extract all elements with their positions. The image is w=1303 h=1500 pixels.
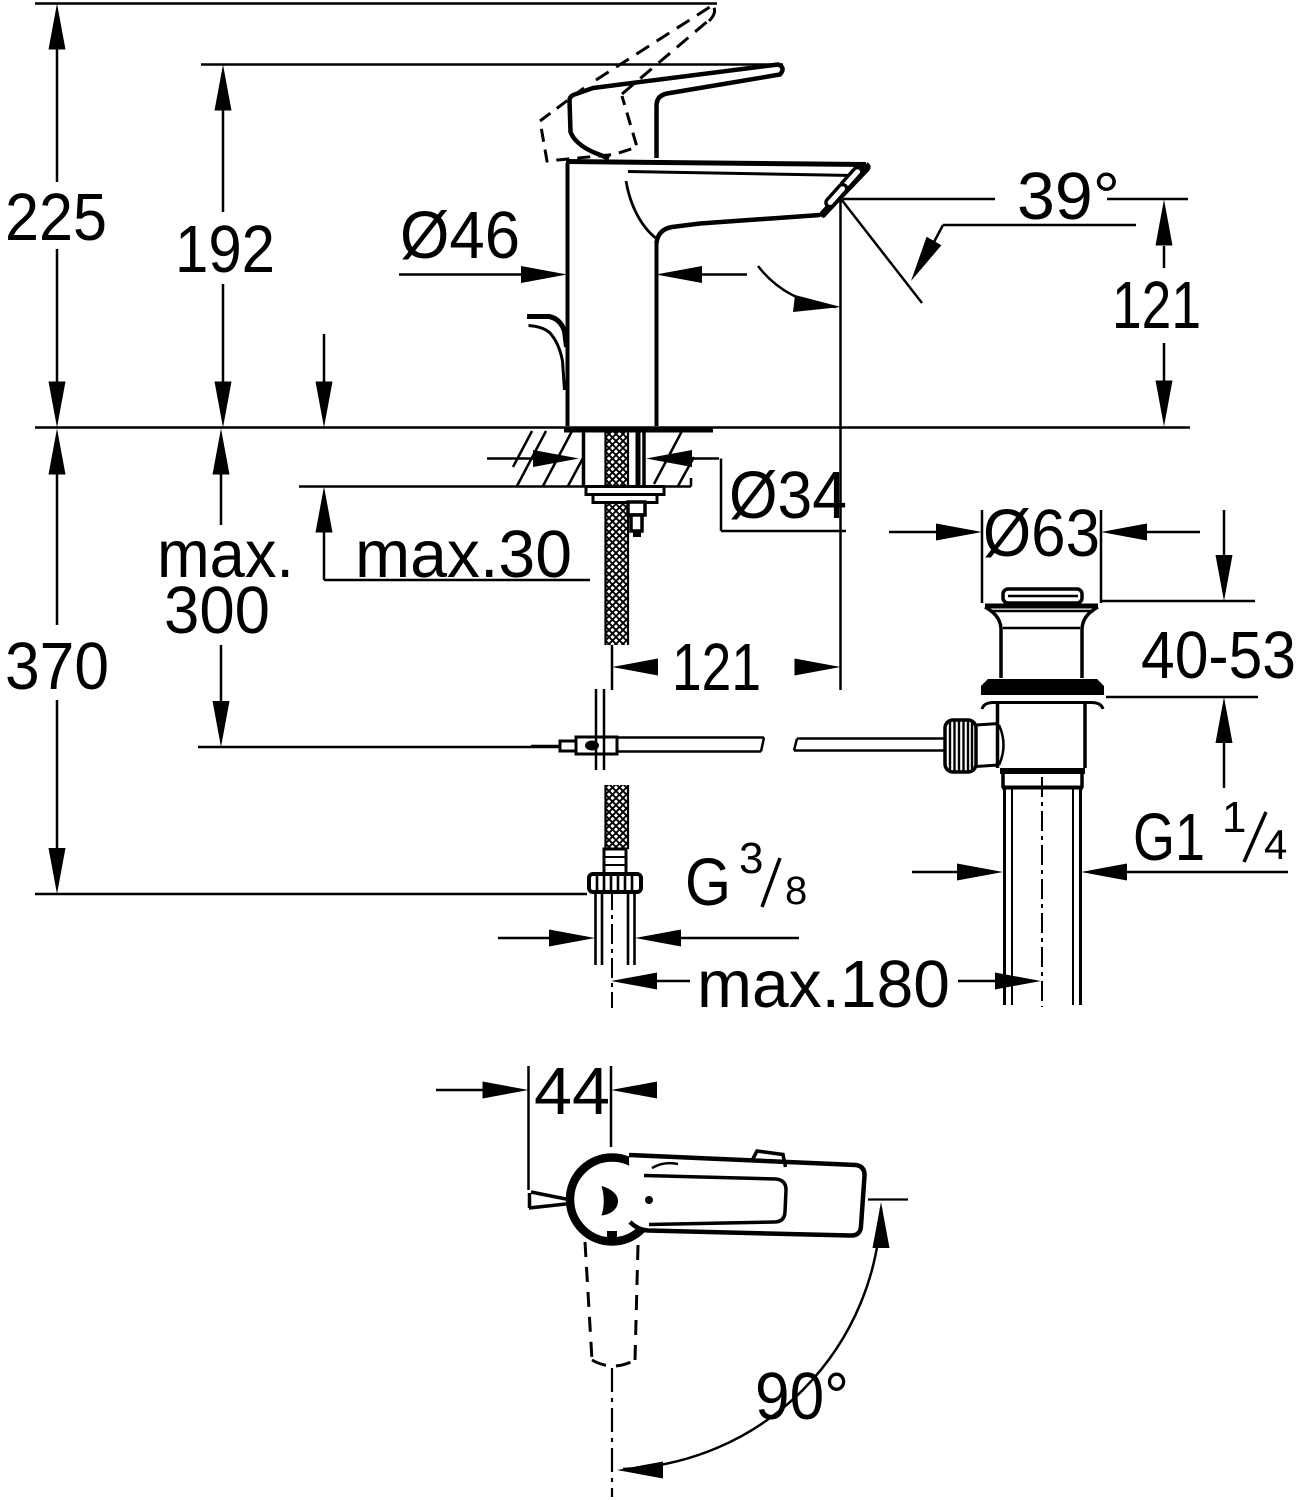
dimension 370 vertical: [56, 472, 59, 850]
dimension D46: [399, 273, 747, 276]
svg-text:370: 370: [5, 629, 109, 704]
valve lower body: [998, 703, 1086, 768]
top view dark hole: [602, 1186, 619, 1216]
mounting stud detail: [628, 502, 645, 515]
wire reference line top (225 max handle height): [35, 2, 717, 5]
svg-text:max.30: max.30: [355, 517, 572, 592]
dimension 90 degree arc: [623, 1208, 881, 1469]
valve flange: [985, 604, 1098, 609]
dimension 121 horizontal (spout reach): [612, 200, 841, 690]
label 39 degrees with leader lines: [843, 199, 1188, 242]
handle lever raised (dashed): [540, 3, 715, 161]
svg-text:44: 44: [534, 1054, 610, 1129]
valve knurled knob: [945, 720, 976, 772]
dimension D34 with leader: [487, 459, 846, 532]
top view handle cap circle: [570, 1158, 654, 1242]
mounting hole walls: [584, 431, 645, 486]
dimension hose pipe arrows: [498, 937, 799, 940]
dimension max.300 vertical: [220, 472, 223, 703]
valve side outlet: [976, 724, 999, 767]
top view handle inner outline: [644, 1176, 786, 1225]
valve o-ring seal: [981, 679, 1104, 695]
braided supply hose lower: [605, 785, 629, 849]
wire deck underside line: [299, 478, 691, 487]
dimension 121 vertical (spout height): [1163, 246, 1166, 382]
svg-text:8: 8: [785, 869, 807, 913]
pop-up rod tee joint: [576, 737, 617, 754]
pop-up rod knob behind faucet: [527, 317, 567, 348]
supply pipe end: [596, 892, 635, 965]
pop-up rod horizontal with break: [617, 738, 764, 752]
svg-text:121: 121: [1112, 268, 1201, 343]
pop-up rod vertical: [596, 689, 604, 770]
svg-text:Ø63: Ø63: [983, 496, 1100, 571]
dimension G1 1/4 arrows: [912, 871, 1288, 874]
svg-text:Ø46: Ø46: [400, 198, 520, 273]
svg-text:225: 225: [5, 180, 107, 255]
svg-text:G: G: [685, 845, 731, 920]
dimension 44 (top view): [436, 1066, 611, 1190]
top view handle body: [629, 1155, 865, 1236]
spout aerator detail: [823, 169, 864, 214]
centerline top view horizontal tick: [868, 1198, 908, 1200]
svg-text:39°: 39°: [1017, 159, 1120, 234]
valve pop-up plug knob: [1003, 589, 1082, 603]
wire max300 bottom reference line: [198, 746, 577, 749]
svg-text:G1: G1: [1133, 800, 1205, 875]
braided supply hose middle: [605, 502, 629, 645]
dimension max.30: [324, 334, 590, 580]
hose end fitting: [604, 849, 626, 874]
svg-text:40-53: 40-53: [1141, 618, 1296, 693]
svg-text:max.180: max.180: [697, 947, 950, 1022]
svg-text:121: 121: [672, 630, 761, 705]
wire deck/counter line: [35, 426, 1190, 429]
top view dashed spout (rotated 90): [585, 1242, 638, 1366]
dimension max.180: [657, 980, 996, 983]
deck cross-section hatching: [513, 431, 694, 486]
svg-text:1: 1: [1222, 793, 1246, 842]
top view gloss line: [652, 1163, 678, 1168]
wire bottom reference line (370): [35, 893, 587, 896]
wire stream angle arc: [758, 266, 836, 307]
wire spout stream angle line: [841, 199, 922, 303]
svg-text:300: 300: [164, 573, 270, 648]
centerline top view vertical: [611, 1368, 613, 1497]
centerline supply pipe: [611, 890, 613, 1008]
top view handle tab: [752, 1151, 786, 1167]
svg-text:90°: 90°: [755, 1359, 849, 1434]
svg-text:4: 4: [1264, 821, 1287, 868]
faucet body column and spout: [566, 162, 868, 427]
wire reference line (192 handle height): [201, 63, 783, 66]
dimension D63: [982, 510, 1101, 603]
centerline valve: [1041, 777, 1043, 1007]
mounting washer and nut: [586, 487, 664, 495]
hose nut G3/8: [589, 874, 641, 892]
dimension 40-53: [1102, 601, 1258, 697]
svg-text:192: 192: [175, 212, 275, 287]
valve tailpipe: [1005, 788, 1081, 1005]
top view spout tip stub: [529, 1192, 566, 1208]
svg-text:3: 3: [739, 834, 763, 883]
svg-text:Ø34: Ø34: [729, 458, 847, 533]
braided supply hose upper: [605, 431, 629, 486]
handle lever solid: [570, 65, 783, 159]
dimension 192 vertical: [222, 108, 225, 384]
wire faucet base thick seat: [564, 427, 713, 433]
dimension 225 vertical: [56, 46, 59, 384]
